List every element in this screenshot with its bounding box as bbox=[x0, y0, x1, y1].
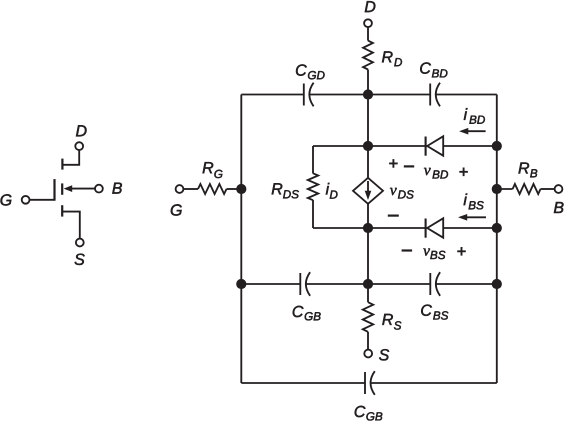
node dot BD centre bbox=[363, 141, 373, 151]
wire bottom rail left bbox=[241, 382, 365, 384]
wire G terminal to RG bbox=[183, 188, 198, 190]
polarity - (vBS left) bbox=[402, 249, 413, 251]
capacitor CBD bbox=[429, 84, 431, 106]
current arrow iBD bbox=[467, 130, 485, 132]
terminal D circle (symbol) bbox=[75, 142, 83, 150]
drain contact tick bbox=[61, 159, 63, 170]
wire RB to B terminal bbox=[541, 188, 555, 190]
label vBD bbox=[424, 168, 448, 179]
polarity + (vDS top) bbox=[389, 159, 398, 168]
label B terminal bbox=[554, 202, 564, 213]
wire B rail to RB bbox=[497, 188, 513, 190]
label vDS bbox=[390, 188, 414, 199]
label RB bbox=[519, 162, 538, 177]
label iBS bbox=[464, 194, 484, 210]
capacitor CGD bbox=[303, 84, 305, 106]
wire RDS branch top bbox=[313, 145, 368, 147]
wire RG to left rail bbox=[227, 188, 242, 190]
node dot G rail bbox=[236, 184, 246, 194]
right rail wire (body net) bbox=[496, 95, 498, 384]
wire drain lead (symbol) bbox=[62, 150, 79, 165]
wire RS to S terminal bbox=[367, 332, 369, 350]
wire diamond to BS node bbox=[367, 204, 369, 228]
node dot cap row centre bbox=[363, 279, 373, 289]
terminal G circle (symbol) bbox=[22, 196, 30, 204]
label G terminal bbox=[171, 204, 182, 215]
wire gate lead (symbol) bbox=[30, 199, 55, 201]
wire RD to top node bbox=[367, 70, 369, 95]
node dot BD right bbox=[492, 141, 502, 151]
label RS bbox=[382, 314, 401, 330]
terminal B circle bbox=[555, 185, 563, 193]
label CBS bbox=[421, 305, 448, 320]
label B (symbol body) bbox=[112, 183, 122, 194]
terminal S circle (symbol) bbox=[76, 239, 84, 247]
label vBS bbox=[423, 248, 445, 259]
terminal B circle (symbol) bbox=[95, 185, 103, 193]
wire top rail left (to CGD) bbox=[241, 94, 303, 96]
terminal D circle bbox=[364, 19, 372, 27]
wire CBS to right rail bbox=[436, 283, 497, 285]
wire RDS branch bottom bbox=[312, 200, 314, 228]
terminal S circle bbox=[364, 350, 372, 358]
controlled source vDS (diamond) bbox=[353, 178, 383, 204]
capacitor CBS bbox=[429, 273, 431, 295]
node dot cap row right bbox=[492, 279, 502, 289]
wire cap row left bbox=[241, 283, 300, 285]
capacitor CGB (bottom) bbox=[364, 372, 366, 394]
current label iD bbox=[326, 183, 338, 199]
node dot top (internal drain) bbox=[363, 89, 373, 99]
label RDS bbox=[272, 183, 299, 198]
polarity + (vBD right) bbox=[459, 168, 468, 177]
wire top node to CBD bbox=[368, 94, 430, 96]
source contact tick bbox=[61, 205, 63, 216]
wire bottom rail right bbox=[370, 382, 496, 384]
diode BS bbox=[425, 219, 427, 238]
polarity - (vDS bottom) bbox=[388, 215, 399, 217]
node dot cap row left bbox=[236, 279, 246, 289]
capacitor CGB (row) bbox=[299, 273, 301, 295]
label RD bbox=[382, 51, 402, 66]
current arrow iBS bbox=[466, 216, 486, 218]
wire CBD to top-right corner bbox=[436, 94, 497, 96]
node dot BS centre bbox=[363, 223, 373, 233]
label S terminal bbox=[379, 349, 389, 360]
resistor RG bbox=[198, 184, 227, 194]
label D (symbol drain) bbox=[76, 125, 87, 136]
node dot B rail at RB bbox=[492, 184, 502, 194]
wire D terminal to RD bbox=[367, 27, 369, 40]
polarity + (vBS right) bbox=[457, 247, 466, 256]
label CBD bbox=[420, 62, 447, 77]
label CGB (row) bbox=[293, 306, 321, 321]
label CGD bbox=[296, 64, 325, 79]
resistor RS bbox=[363, 302, 373, 332]
wire BS node to RS bbox=[367, 228, 369, 302]
transistor Q1 (4-terminal MOSFET symbol) bbox=[1, 125, 122, 265]
wire BD diode row bbox=[368, 145, 497, 147]
terminal G circle bbox=[176, 185, 184, 193]
body arrow into channel bbox=[71, 188, 95, 190]
wire BS diode row bbox=[368, 227, 497, 229]
wire CGD to top node bbox=[309, 94, 368, 96]
body contact tick bbox=[61, 183, 63, 194]
wire CGB to S node bbox=[306, 283, 431, 285]
label S (symbol source) bbox=[75, 254, 85, 265]
resistor RDS bbox=[308, 173, 318, 200]
label iBD bbox=[464, 108, 485, 123]
resistor RB bbox=[513, 184, 541, 194]
label G (symbol gate) bbox=[1, 194, 12, 205]
left rail wire (gate net) bbox=[240, 95, 242, 384]
gate bar bbox=[53, 179, 55, 201]
wire centre column (top node to diamond) bbox=[367, 95, 369, 179]
label D terminal bbox=[365, 1, 376, 12]
label RG bbox=[203, 162, 223, 178]
label CGB (bottom) bbox=[355, 406, 383, 421]
resistor RD bbox=[363, 41, 373, 70]
diode BD bbox=[425, 137, 427, 156]
node dot BS right bbox=[492, 223, 502, 233]
wire source lead (symbol) bbox=[62, 212, 80, 239]
polarity - (vBD left) bbox=[404, 165, 414, 167]
